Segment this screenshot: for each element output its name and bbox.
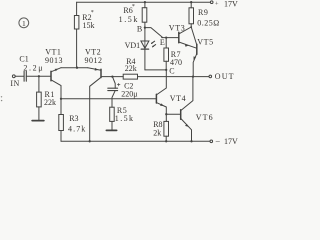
annotation circled 1 [19,18,29,28]
ground under R1 [32,120,44,122]
svg-text:VD1: VD1 [125,41,141,50]
svg-text:0.25Ω: 0.25Ω [197,18,219,27]
svg-text:*: * [91,10,94,16]
svg-text:IN: IN [10,79,19,88]
wire C1 to VT1 base [26,75,51,77]
svg-text:E: E [160,38,165,47]
svg-text:R9: R9 [198,8,208,17]
svg-text:1.5k: 1.5k [119,15,139,24]
svg-text:1.5k: 1.5k [115,114,135,123]
svg-text:R3: R3 [69,114,78,123]
svg-text:9013: 9013 [45,56,63,65]
svg-text:+: + [215,0,219,7]
svg-text:VT5: VT5 [197,37,214,46]
node B [144,26,146,28]
terminal +17V [210,1,213,4]
svg-text:2.2μ: 2.2μ [23,64,44,73]
node VT1 collector junction [60,98,62,100]
resistor R9 [190,1,192,3]
svg-text:22k: 22k [125,64,137,73]
svg-text:2k: 2k [153,128,161,137]
svg-text:17V: 17V [224,0,238,8]
terminal -17V [210,140,213,143]
svg-text:VT3: VT3 [169,24,186,33]
node VT2 collector at rail [89,140,91,142]
transistor VT4 [155,94,157,103]
svg-text:C: C [169,67,174,76]
capacitor C2 [112,77,115,89]
wire emitter junction row [61,67,88,69]
transistor VT6 [180,110,182,119]
resistor R5 [110,107,115,121]
transistor VT5 [196,44,198,54]
wire node C [145,69,166,71]
capacitor C1 [23,71,25,81]
diode VD1 [144,28,146,41]
transistor VT2 [100,69,102,77]
svg-text:*: * [132,4,135,10]
wire top +17V rail [77,1,211,3]
wire R4 to OUT column [138,76,209,78]
node C2 tap [111,75,113,77]
svg-text:C1: C1 [19,55,28,64]
svg-text:220μ: 220μ [121,90,137,99]
svg-text:VT4: VT4 [170,94,186,103]
wire B to VT3 base [145,28,163,38]
terminal OUT [209,75,212,78]
ground under R5 [106,129,116,131]
resistor R2 [76,2,78,15]
transistor VT1 [50,71,52,80]
input terminal [12,75,15,78]
svg-text:VT1: VT1 [45,48,61,57]
svg-text:15k: 15k [83,21,95,30]
wire VT4 base line [61,98,156,100]
svg-text:VT2: VT2 [85,48,101,57]
svg-text:9012: 9012 [85,56,103,65]
wire VT4 emitter to VT6 base [166,113,180,115]
transistor VT3 [178,32,180,42]
wire bottom -17V rail [61,140,210,142]
resistor R1 [38,76,40,92]
resistor R7 [165,38,167,48]
wire VT2 base / feedback line to OUT [101,76,123,78]
node VT3/VT5 collector junction [190,26,192,28]
svg-text:VT6: VT6 [196,113,214,122]
resistor R8 [165,114,167,121]
node E junction [165,36,167,38]
node junction R2/VT1/VT2 [76,67,78,69]
svg-text:OUT: OUT [215,72,235,81]
resistor R6 [144,1,146,3]
svg-text:B: B [137,24,142,33]
svg-text:17V: 17V [224,137,238,146]
resistor R3 [60,99,62,115]
resistor R4 [123,74,137,79]
svg-text:1: 1 [22,19,26,28]
svg-text:4.7k: 4.7k [68,124,86,133]
node OUT junction [192,75,194,77]
svg-text:22k: 22k [44,98,56,107]
svg-text:–: – [215,137,221,146]
node C1/R1/base [38,75,40,77]
wire input [15,75,24,77]
